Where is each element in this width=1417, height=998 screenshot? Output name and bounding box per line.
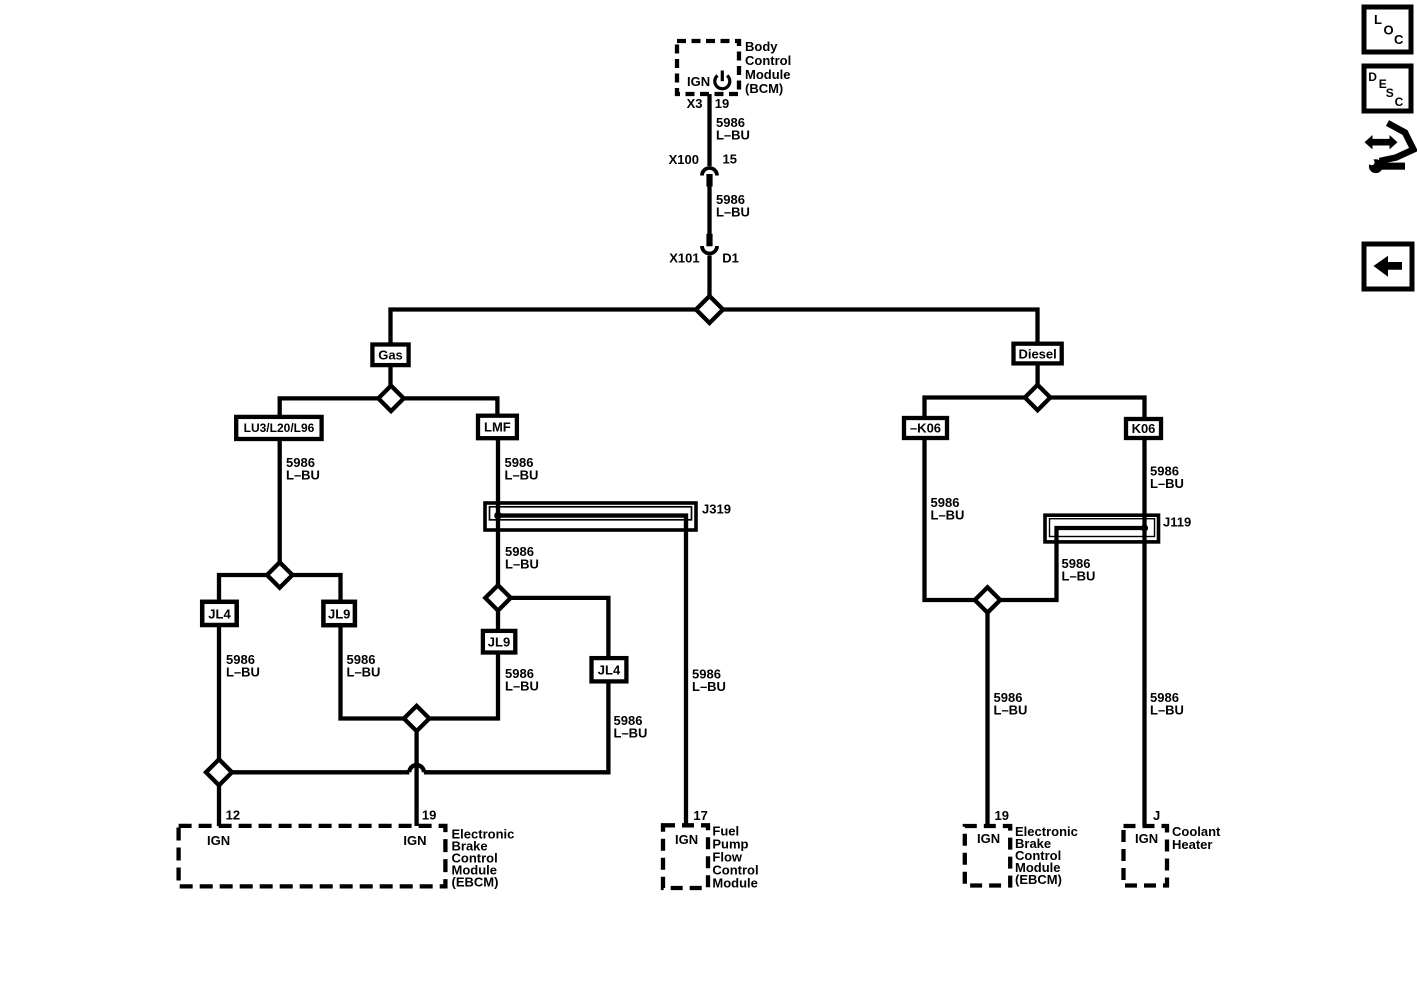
svg-text:L–BU: L–BU — [716, 128, 750, 143]
svg-text:L–BU: L–BU — [1150, 476, 1184, 491]
svg-text:Module: Module — [712, 876, 758, 891]
svg-text:19: 19 — [422, 808, 436, 823]
svg-text:X3: X3 — [687, 96, 703, 111]
svg-text:X101: X101 — [669, 251, 699, 266]
diamond right arm to JL4 right — [511, 598, 609, 658]
wire diamond down to EBCM pin 19 — [414, 731, 418, 826]
svg-text:D1: D1 — [722, 251, 739, 266]
svg-text:L–BU: L–BU — [347, 665, 381, 680]
svg-text:Module: Module — [745, 67, 791, 82]
svg-text:L–BU: L–BU — [286, 468, 320, 483]
module EBCM left dashed box — [179, 826, 446, 887]
svg-text:L–BU: L–BU — [614, 726, 648, 741]
box -K06 — [904, 418, 947, 438]
svg-text:IGN: IGN — [1135, 831, 1158, 846]
svg-text:JL4: JL4 — [598, 663, 621, 678]
wire diamond down to EBCM pin 12 — [217, 785, 221, 826]
svg-text:C: C — [1395, 95, 1404, 109]
svg-text:L: L — [1374, 12, 1382, 27]
box K06 — [1126, 419, 1161, 438]
svg-text:O: O — [1384, 23, 1394, 38]
svg-text:L–BU: L–BU — [692, 679, 726, 694]
svg-text:15: 15 — [723, 152, 737, 167]
wire JL4 left down to diamond — [217, 625, 221, 760]
svg-text:L–BU: L–BU — [994, 703, 1028, 718]
svg-text:12: 12 — [226, 808, 240, 823]
junction diamond main — [696, 296, 723, 323]
power symbol in BCM — [715, 71, 730, 89]
box LMF — [478, 416, 517, 439]
box Gas — [372, 345, 408, 366]
junction diamond JL9 — [404, 706, 429, 731]
wire LU3 to diamond — [278, 439, 282, 563]
wire JL9 left down and right to diamond — [341, 625, 405, 719]
wire K06 through J119 down to coolant heater — [1142, 528, 1146, 826]
icon wiring jump (arrow and wrench) — [1365, 123, 1414, 173]
junction diamond mid right — [485, 585, 510, 610]
svg-text:L–BU: L–BU — [505, 679, 539, 694]
box JL4 right — [592, 658, 627, 681]
icon LOC button — [1364, 7, 1411, 52]
icon DESC button — [1364, 66, 1411, 111]
svg-text:K06: K06 — [1132, 421, 1156, 436]
junction diamond JL4 — [206, 759, 232, 785]
box JL4 left — [202, 602, 237, 625]
svg-text:19: 19 — [715, 96, 729, 111]
svg-text:Gas: Gas — [378, 348, 403, 363]
svg-text:(BCM): (BCM) — [745, 81, 783, 96]
svg-text:IGN: IGN — [675, 832, 698, 847]
junction diamond diesel low — [975, 587, 1000, 612]
module Fuel Pump dashed box — [663, 825, 708, 888]
svg-text:LU3/L20/L96: LU3/L20/L96 — [244, 421, 315, 435]
svg-text:D: D — [1368, 70, 1377, 84]
svg-text:Heater: Heater — [1172, 837, 1212, 852]
wire Diesel to diamond — [1035, 363, 1039, 386]
svg-text:IGN: IGN — [403, 833, 426, 848]
svg-text:J319: J319 — [702, 502, 731, 517]
box LU3/L20/L96 — [236, 417, 321, 439]
left split horizontal wire — [219, 575, 341, 602]
splice J319 — [485, 502, 731, 531]
svg-text:Body: Body — [745, 39, 778, 54]
svg-text:(EBCM): (EBCM) — [1015, 872, 1062, 887]
wire J319 to fuel pump module — [684, 530, 688, 826]
wire hop over pin-19 wire — [409, 765, 424, 772]
wire diamond down to EBCM right — [985, 613, 989, 826]
box JL9 left — [323, 602, 355, 625]
box JL9 right — [483, 631, 515, 653]
svg-text:IGN: IGN — [207, 833, 230, 848]
svg-text:L–BU: L–BU — [1150, 703, 1184, 718]
svg-text:–K06: –K06 — [910, 421, 941, 436]
wire K06 down to splice J119 — [1142, 438, 1146, 528]
svg-text:J119: J119 — [1163, 515, 1191, 530]
svg-text:(EBCM): (EBCM) — [452, 874, 499, 889]
main horizontal bus wire — [391, 310, 1038, 345]
svg-text:L–BU: L–BU — [505, 468, 539, 483]
junction diamond left split — [267, 562, 292, 587]
wire -K06 down to diamond — [925, 438, 975, 600]
svg-text:Control: Control — [745, 53, 791, 68]
svg-text:LMF: LMF — [484, 420, 511, 435]
gas branch horizontal wire — [280, 398, 498, 417]
svg-text:C: C — [1394, 32, 1404, 47]
wire JL9 right down to junction line — [429, 653, 498, 719]
svg-text:JL9: JL9 — [328, 607, 350, 622]
svg-text:JL4: JL4 — [208, 607, 231, 622]
wire diamond to JL9 right — [496, 611, 500, 631]
wire J119 left leg down to diamond — [1000, 542, 1056, 600]
module BCM dashed box — [677, 41, 739, 94]
svg-text:19: 19 — [995, 808, 1009, 823]
svg-text:X100: X100 — [669, 152, 699, 167]
svg-text:IGN: IGN — [687, 74, 710, 89]
svg-text:L–BU: L–BU — [226, 665, 260, 680]
wire LMF down to splice J319 — [496, 438, 500, 586]
wire Gas to diamond — [388, 365, 392, 388]
wire JL4 right down to bottom bus — [424, 681, 609, 772]
diesel branch horizontal wire — [925, 398, 1145, 420]
junction diamond diesel — [1025, 385, 1050, 410]
svg-text:S: S — [1386, 86, 1394, 100]
wire X100 to X101 — [707, 187, 711, 235]
splice J119 — [1045, 515, 1191, 543]
svg-text:JL9: JL9 — [488, 635, 510, 650]
svg-text:J: J — [1153, 808, 1160, 823]
svg-text:Diesel: Diesel — [1018, 347, 1056, 362]
svg-text:L–BU: L–BU — [716, 205, 750, 220]
connector X100 — [669, 152, 737, 187]
svg-text:17: 17 — [693, 808, 707, 823]
connector X101 — [669, 234, 739, 266]
wire X101 to junction — [707, 256, 711, 298]
box Diesel — [1014, 344, 1062, 364]
icon back button — [1364, 244, 1412, 289]
svg-text:L–BU: L–BU — [505, 557, 539, 572]
module EBCM right dashed box — [965, 826, 1010, 886]
svg-text:L–BU: L–BU — [1062, 569, 1096, 584]
svg-text:IGN: IGN — [977, 831, 1000, 846]
wire BCM to X100 — [707, 94, 711, 166]
svg-text:L–BU: L–BU — [931, 508, 965, 523]
module Coolant Heater dashed box — [1124, 826, 1168, 886]
junction diamond gas — [378, 386, 403, 411]
bottom bus wire to JL4 diamond — [232, 770, 409, 774]
